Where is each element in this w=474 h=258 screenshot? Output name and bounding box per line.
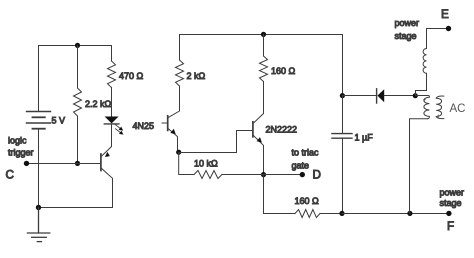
svg-text:to triac: to triac — [292, 148, 320, 158]
node junction diode/transformer — [413, 93, 418, 98]
transistor Q1 arrow top lead — [105, 152, 110, 157]
node junction cap bottom — [339, 211, 344, 216]
node junction ground — [36, 205, 41, 210]
resistor R4 lead top — [263, 35, 265, 57]
resistor R3 2 kOhm — [176, 60, 184, 86]
svg-text:4N25: 4N25 — [133, 121, 155, 131]
wire top rail left circuit — [39, 45, 112, 47]
wire diode row left — [343, 95, 377, 97]
resistor R6 160 Ohm bottom — [295, 210, 320, 218]
node D terminal — [300, 172, 305, 177]
wire top rail middle circuit — [180, 34, 343, 36]
svg-text:AC: AC — [450, 103, 466, 115]
wire mid rail down right side — [342, 35, 344, 96]
resistor R1 470 Ohm — [108, 61, 116, 88]
svg-text:5 V: 5 V — [52, 116, 66, 126]
transformer secondary winding — [436, 96, 444, 119]
node F terminal — [446, 211, 451, 216]
resistor R2 lead top — [77, 46, 79, 89]
wire R2 bottom lead — [77, 116, 79, 164]
wire logic trigger row — [27, 163, 101, 165]
phototransistor emitter lead — [168, 129, 179, 153]
svg-text:trigger: trigger — [8, 148, 34, 158]
svg-text:2.2 kΩ: 2.2 kΩ — [85, 99, 112, 109]
wire E to top winding — [426, 29, 428, 49]
node junction mid rail — [261, 32, 266, 37]
wire LED to Q1 collector — [101, 124, 111, 156]
wire R4 to Q2 collector — [253, 82, 263, 124]
wire junction to D — [264, 174, 303, 176]
node junction emitter/base/10k — [176, 150, 181, 155]
wire junction down to 10k row — [179, 153, 194, 175]
wire R1 to LED — [111, 88, 113, 117]
node junction diode/cap — [340, 93, 345, 98]
node E terminal — [446, 26, 451, 31]
resistor R4 160 Ohm top — [260, 56, 268, 82]
svg-text:+: + — [437, 114, 441, 120]
diode D2 — [376, 89, 378, 103]
transistor Q1 base bar — [100, 154, 102, 171]
wire E terminal row — [427, 28, 449, 30]
svg-text:F: F — [447, 220, 454, 233]
capacitor C1 1uF — [332, 134, 352, 139]
inductor top winding — [423, 49, 426, 74]
wire battery top lead — [38, 46, 40, 112]
svg-text:1 µF: 1 µF — [355, 133, 374, 143]
transformer primary winding — [416, 96, 430, 119]
phototransistor base stub — [162, 122, 168, 124]
svg-text:power: power — [395, 18, 420, 28]
node junction R2/base wire — [75, 161, 80, 166]
wire top winding to diode junction — [416, 74, 427, 96]
svg-text:470 Ω: 470 Ω — [119, 71, 144, 81]
svg-text:2 kΩ: 2 kΩ — [187, 71, 206, 81]
wire bottom rail right — [342, 213, 449, 215]
svg-text:C: C — [6, 169, 14, 182]
svg-text:D: D — [313, 169, 321, 182]
svg-text:power: power — [440, 188, 465, 198]
transistor Q1 emitter lead down — [101, 168, 112, 207]
wire R3 to phototransistor collector — [168, 86, 179, 118]
LED light arrows — [115, 124, 124, 134]
resistor R5 10 kOhm — [194, 171, 222, 179]
svg-text:160 Ω: 160 Ω — [295, 196, 320, 206]
transistor Q2 emitter lead — [253, 135, 263, 174]
LED of 4N25 optocoupler — [105, 117, 119, 124]
resistor R2 2.2 kOhm — [74, 88, 82, 116]
transistor Q2 base bar — [252, 122, 254, 137]
node junction emitter/10k/D — [261, 172, 266, 177]
wire diode row right — [384, 95, 415, 97]
wire junction to Q2 base — [179, 131, 253, 153]
svg-text:160 Ω: 160 Ω — [271, 66, 296, 76]
phototransistor emitter arrow — [170, 129, 175, 134]
transistor Q2 emitter arrow — [257, 137, 262, 142]
svg-text:stage: stage — [395, 31, 417, 41]
resistor R1 lead top — [111, 46, 113, 62]
svg-text:gate: gate — [292, 161, 310, 171]
svg-text:stage: stage — [440, 198, 462, 208]
wire capacitor to bottom rail — [342, 138, 344, 213]
wire R5 to junction — [222, 174, 264, 176]
phototransistor U1 base bar — [167, 116, 169, 131]
svg-text:E: E — [441, 8, 449, 21]
node junction transformer bottom — [407, 211, 412, 216]
svg-text:2N2222: 2N2222 — [266, 125, 298, 135]
svg-text:+: + — [423, 98, 427, 104]
svg-text:10 kΩ: 10 kΩ — [194, 159, 218, 169]
wire battery bottom lead — [38, 129, 40, 208]
wire primary bottom lead — [410, 119, 428, 214]
wire emitter junction down to bottom rail — [264, 175, 296, 214]
wire R6 to cap junction — [320, 213, 343, 215]
resistor R3 lead top — [179, 35, 181, 61]
node junction top rail — [75, 43, 80, 48]
ground — [27, 208, 49, 242]
battery 5V — [27, 112, 51, 129]
node C terminal — [24, 161, 29, 166]
svg-text:logic: logic — [8, 136, 27, 146]
wire to capacitor — [342, 96, 344, 134]
wire bottom left circuit — [39, 207, 113, 209]
